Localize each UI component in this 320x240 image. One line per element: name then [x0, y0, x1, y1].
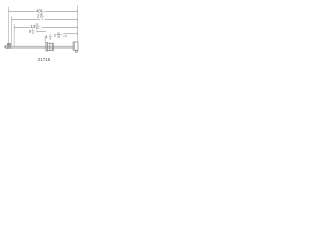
middle body [47, 43, 53, 50]
tick D left [36, 30, 38, 32]
svg-text:16: 16 [57, 35, 60, 39]
right end fitting [73, 42, 78, 50]
tick E right [65, 35, 67, 37]
tick A right [77, 10, 79, 12]
tick C left [13, 26, 15, 28]
dimension label E 1 7/8 [46, 33, 53, 40]
left jam nut 1 [6, 43, 9, 48]
dimension line C left segment [14, 27, 30, 29]
dimension line E right segment [63, 35, 67, 37]
tick C right [77, 26, 79, 28]
middle body inner line 1 [49, 43, 51, 50]
tick A left [8, 10, 10, 12]
rod bottom edge [11, 47, 73, 49]
dimension label C 13 15/16 [31, 23, 41, 30]
left end cap [6, 46, 8, 49]
svg-text:21715: 21715 [38, 57, 51, 62]
rod left tip [4, 46, 7, 48]
dimension label D-mid 2 15/16 [54, 31, 62, 38]
dimension label A 40 1/2 [36, 8, 44, 15]
dimension line B [12, 19, 41, 21]
dimension label D 8 1/2 [29, 28, 35, 35]
middle flange [46, 42, 47, 51]
extension line left 3 [13, 24, 15, 46]
dimension line D right segment [63, 33, 77, 35]
extension line left 1 [8, 7, 10, 47]
dimension line E left stub [44, 35, 47, 37]
right fitting inner line [73, 42, 75, 50]
extension line left 2 [11, 16, 13, 46]
dimension line A [9, 10, 36, 12]
left jam nut 2 [10, 43, 11, 48]
dimension line C right segment [42, 27, 78, 29]
dimension line D left segment [37, 31, 46, 33]
svg-text:16: 16 [36, 26, 39, 30]
rod top edge [11, 45, 73, 47]
right fitting bottom stub [76, 50, 78, 52]
tick B left [11, 18, 13, 20]
tick D right [77, 33, 79, 35]
dimension line E corner vertical [44, 36, 46, 42]
middle body inner line 2 [51, 43, 53, 50]
extension line right [77, 5, 79, 42]
dimension label B 27 1/2 [37, 13, 44, 21]
tick B right [77, 18, 79, 20]
